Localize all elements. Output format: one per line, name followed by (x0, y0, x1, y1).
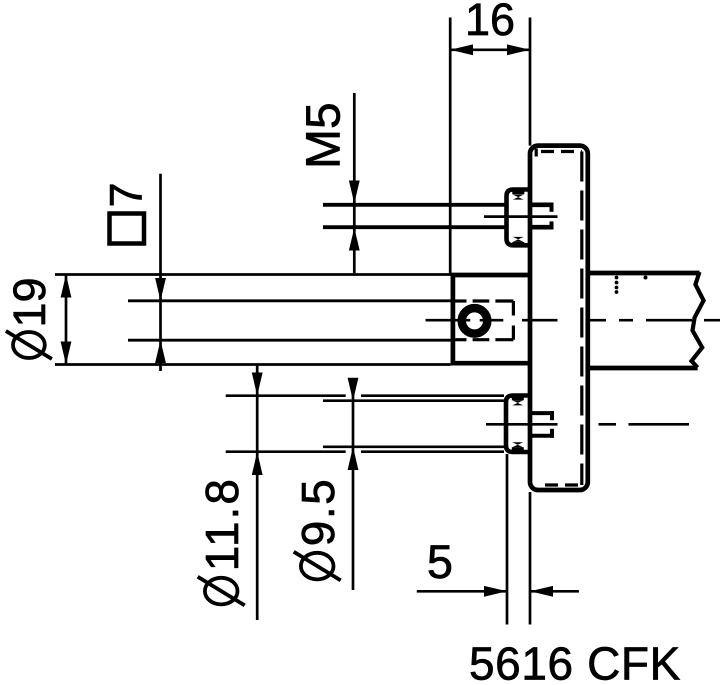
svg-text:11.8: 11.8 (196, 477, 248, 571)
svg-text:16: 16 (465, 0, 515, 45)
svg-text:9.5: 9.5 (292, 478, 344, 546)
svg-text:5: 5 (427, 535, 453, 588)
svg-text:19: 19 (4, 277, 55, 327)
svg-text:7: 7 (101, 182, 152, 207)
svg-text:5616 CFK: 5616 CFK (469, 638, 681, 685)
svg-text:M5: M5 (298, 102, 351, 169)
